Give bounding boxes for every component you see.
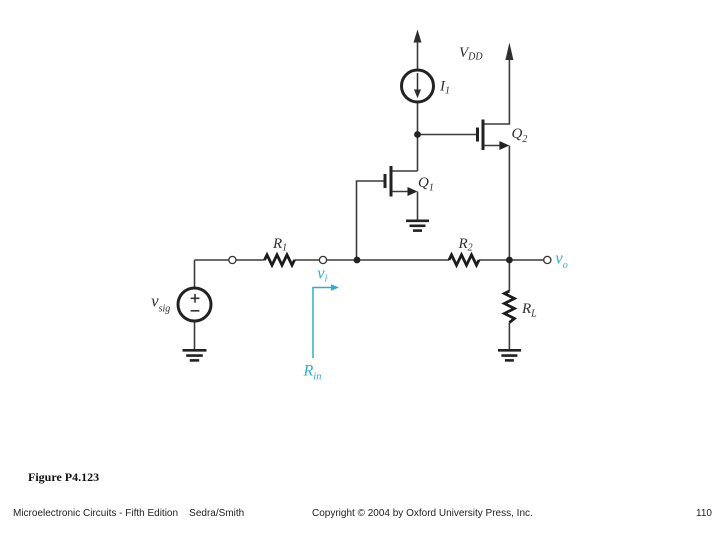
svg-text:RL: RL — [521, 301, 537, 320]
svg-text:Q1: Q1 — [418, 175, 434, 194]
svg-text:R2: R2 — [458, 236, 473, 253]
svg-text:Rin: Rin — [303, 363, 322, 383]
svg-text:vo: vo — [555, 249, 567, 272]
svg-text:VDD: VDD — [459, 45, 483, 63]
svg-text:I1: I1 — [439, 79, 450, 97]
svg-text:Q2: Q2 — [512, 126, 528, 145]
svg-text:vi: vi — [317, 264, 327, 285]
svg-text:vsig: vsig — [151, 292, 170, 315]
svg-text:R1: R1 — [272, 236, 287, 253]
